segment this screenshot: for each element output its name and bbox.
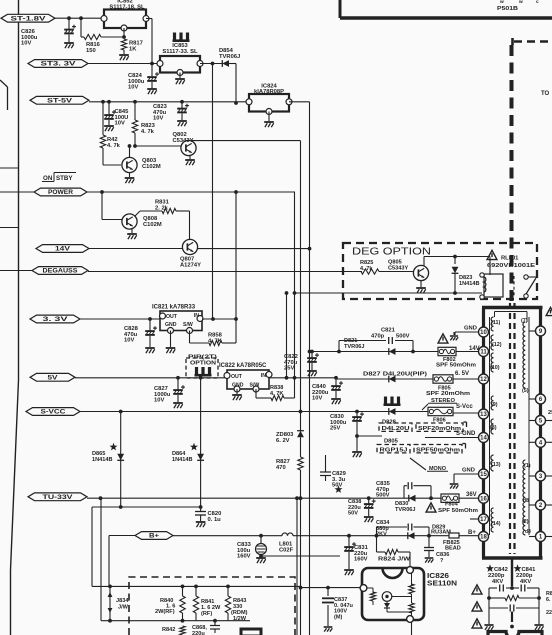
svg-text:D805: D805 <box>384 439 399 445</box>
junction <box>67 16 71 20</box>
chassis left vertical line <box>11 0 19 635</box>
junction <box>100 190 104 194</box>
svg-text:R824 J/W: R824 J/W <box>378 557 411 563</box>
junction <box>337 350 341 354</box>
winding 14 <box>491 508 493 532</box>
wire x212 bus <box>212 64 214 320</box>
junction <box>119 410 123 414</box>
diode D827 <box>389 376 396 383</box>
transistor Q803 <box>122 157 137 172</box>
diode D828 label <box>382 420 397 426</box>
wire y436 to D805 <box>357 435 382 437</box>
label GND pin15 <box>462 468 475 474</box>
fuse F805 value <box>426 391 470 397</box>
junction <box>199 505 203 509</box>
junction <box>148 317 152 321</box>
wire C830 stem <box>356 412 358 418</box>
svg-text:S-VCC: S-VCC <box>41 409 67 416</box>
svg-text:w: w <box>499 0 504 5</box>
winding 11-12 <box>491 317 493 331</box>
wire R843 low <box>227 613 229 621</box>
wire right pin stub <box>546 475 552 477</box>
resistor R840 label <box>155 598 175 615</box>
wire x295 bus <box>294 192 296 378</box>
svg-text:SPF20mOhm: SPF20mOhm <box>418 426 461 432</box>
wire 6.5V row <box>336 378 479 380</box>
wire Q805 emitter <box>420 281 422 288</box>
capacitor C826 <box>64 25 76 34</box>
capacitor C830 value <box>330 414 347 432</box>
wire 3.3V <box>80 318 160 320</box>
diode D821 label <box>344 338 365 350</box>
svg-text:OPTION: OPTION <box>190 361 216 367</box>
label 6.5V right <box>455 371 469 377</box>
wire C823 low <box>181 114 183 121</box>
wire 5V right <box>269 377 336 379</box>
IC826 label <box>427 573 457 588</box>
svg-text:IC821 kA78R33: IC821 kA78R33 <box>152 305 196 311</box>
warning triangle RL801 <box>487 250 497 259</box>
wire x236 power bus <box>235 192 237 343</box>
svg-text:4. 7K: 4. 7K <box>208 338 223 344</box>
svg-text:14V: 14V <box>55 246 71 253</box>
wire R824 <box>377 536 411 566</box>
transformer core dashed left <box>509 303 511 554</box>
capacitor C833 value <box>237 542 252 560</box>
relay RL801 switch <box>514 275 537 298</box>
svg-text:5V: 5V <box>48 375 59 382</box>
fuse F802 label <box>443 357 456 363</box>
diode D821 <box>389 348 396 355</box>
svg-text:S1117-33. SL: S1117-33. SL <box>162 49 198 55</box>
resistor R823 <box>132 120 137 133</box>
wire Q803 collector <box>129 146 131 158</box>
wire R840 top <box>182 586 184 596</box>
capacitor C841 label <box>516 567 536 585</box>
wire POWER left <box>0 191 34 193</box>
wire y507 <box>92 506 201 508</box>
regulator IC852 label <box>117 0 132 5</box>
diode D828 inline <box>389 408 396 415</box>
svg-text:d8: d8 <box>525 529 531 535</box>
junction <box>487 596 491 600</box>
wire DEGAUSS <box>88 271 362 273</box>
ground C836 <box>425 558 434 563</box>
svg-text:POWER: POWER <box>48 189 74 196</box>
capacitor C868 label <box>192 625 207 635</box>
wire C845 stem <box>108 102 110 115</box>
jumper J834 label <box>116 598 129 611</box>
wire R840 low <box>182 613 184 621</box>
heatsink S-VCC <box>384 397 401 407</box>
svg-text:C5343Y: C5343Y <box>388 265 408 271</box>
capacitor C845 <box>104 110 116 119</box>
transformer pin 3 <box>536 471 546 481</box>
wire right pin stub <box>546 420 552 422</box>
wire Q808 collector <box>135 211 162 216</box>
svg-text:C102M: C102M <box>143 222 162 228</box>
resistor R831 <box>162 208 176 213</box>
fuse F804 <box>441 494 459 502</box>
label MONO <box>427 466 448 472</box>
svg-text:16: 16 <box>480 496 487 502</box>
chassis corner mark <box>0 80 8 110</box>
IC821 pin names <box>165 313 199 328</box>
transformer right rail <box>539 308 542 559</box>
regulator IC824 <box>246 94 292 115</box>
transistor Q805 <box>413 265 428 280</box>
regulator IC852 part <box>109 4 145 10</box>
svg-text:10V: 10V <box>312 396 322 402</box>
resistor R42 <box>100 135 105 148</box>
star D864 <box>190 443 198 451</box>
junction <box>510 586 514 590</box>
wire y140.6 <box>190 140 301 142</box>
label GND pin10 <box>464 326 477 332</box>
svg-text:F806: F806 <box>433 418 446 424</box>
transformer bottom bar <box>482 556 543 560</box>
capacitor C829 <box>320 466 331 481</box>
net flag 14V <box>36 245 89 253</box>
capacitor C821 <box>389 337 393 344</box>
wire 14V row <box>310 351 479 353</box>
diode IC826 internal <box>384 601 412 612</box>
wire C838 low <box>368 509 370 516</box>
star C829 <box>335 485 343 493</box>
capacitor C822 value <box>284 354 298 372</box>
wire D823 top <box>454 257 456 265</box>
warning triangle 2 <box>472 602 482 611</box>
capacitor C822 <box>307 353 319 362</box>
capacitor C8xx <box>510 605 514 612</box>
junction <box>234 190 238 194</box>
arrow mono <box>410 458 426 470</box>
junction <box>194 585 198 589</box>
transformer pin 9 <box>536 326 546 336</box>
svg-text:4. 7k: 4. 7k <box>141 129 155 135</box>
star D865 <box>110 443 118 451</box>
IC826 internals <box>367 573 412 616</box>
svg-text:C102M: C102M <box>142 164 161 170</box>
winding labels right <box>521 318 531 535</box>
capacitor C820 value <box>208 511 222 523</box>
svg-text:ON: ON <box>43 175 53 182</box>
transistor Q807 <box>182 239 197 254</box>
junction <box>79 16 83 20</box>
ground left col <box>484 625 493 630</box>
winding 12-10 <box>491 335 493 350</box>
svg-text:ST3. 3V: ST3. 3V <box>41 61 77 68</box>
ground C826 <box>64 43 74 48</box>
wire to pin13 <box>453 412 479 414</box>
svg-text:STBY: STBY <box>56 175 73 182</box>
capacitor C828 <box>145 326 157 335</box>
wire IC852 out <box>146 18 152 20</box>
resistor R838 <box>271 395 284 400</box>
svg-text:1N414B: 1N414B <box>172 457 193 463</box>
wire R825 to Q805 <box>379 271 413 273</box>
ground C828 <box>145 348 155 353</box>
wire ST-5V <box>89 101 249 103</box>
resistor IC826 r2 <box>409 584 414 594</box>
resistor R827 value <box>276 459 290 471</box>
wire C834 row <box>377 527 430 536</box>
regulator IC824 part <box>254 89 284 95</box>
fuse F802 <box>438 347 456 355</box>
wire D823 low <box>454 274 456 294</box>
regulator IC853 part <box>162 49 198 55</box>
wire C828 low <box>149 336 151 347</box>
svg-text:2W(RF): 2W(RF) <box>155 609 175 615</box>
DEG OPTION dashed box <box>343 243 537 299</box>
ground Q802 <box>185 160 195 165</box>
resistor R842 label <box>162 627 175 633</box>
svg-text:6. 5V: 6. 5V <box>455 371 469 377</box>
svg-text:ST-1.8V: ST-1.8V <box>11 15 47 22</box>
wire R858 out <box>222 342 236 344</box>
svg-text:10V: 10V <box>153 116 163 122</box>
transformer top inner link <box>495 312 528 323</box>
svg-text:ST-5V: ST-5V <box>47 98 73 105</box>
junction <box>429 496 433 500</box>
wire C826 lower <box>68 35 70 43</box>
wire right pin stub <box>546 441 552 443</box>
transistor Q805 label <box>388 260 408 272</box>
wire C822 low <box>311 363 313 370</box>
svg-text:P501B: P501B <box>497 6 518 12</box>
ground Q808 <box>127 234 137 239</box>
junction <box>285 376 289 380</box>
wire right pin inner stub <box>529 504 536 506</box>
svg-text:OUT: OUT <box>166 314 178 320</box>
capacitor C836 <box>424 548 434 551</box>
wire stub left y168 <box>0 167 19 169</box>
junction <box>226 585 230 589</box>
resistor R824 label <box>378 557 411 563</box>
capacitor C833 <box>256 544 267 555</box>
wire C830 gnd stem <box>356 436 358 451</box>
diode D854 <box>222 60 229 67</box>
svg-text:S-Vcc: S-Vcc <box>456 404 473 410</box>
ground C833 <box>256 558 266 563</box>
svg-text:4KV: 4KV <box>492 579 503 585</box>
resistor R831 value <box>155 200 170 212</box>
capacitor C836 label <box>436 552 449 564</box>
label ON-STBY <box>42 173 76 183</box>
svg-text:(7): (7) <box>521 318 528 324</box>
junction <box>367 496 371 500</box>
wire Q808 base <box>102 219 122 221</box>
wire B+ right <box>173 535 282 537</box>
junction <box>285 291 289 295</box>
resistor R843 <box>225 596 230 613</box>
dashed line to CRT top <box>514 40 552 43</box>
svg-text:50V: 50V <box>348 511 358 517</box>
regulator IC821 <box>160 311 204 334</box>
wire D864 column <box>200 378 202 507</box>
wire right pin inner stub <box>529 330 536 332</box>
wire x101 drop <box>100 498 102 621</box>
resistor R817 <box>121 39 126 50</box>
svg-text:TVR06J: TVR06J <box>219 54 240 60</box>
svg-text:50V: 50V <box>332 483 342 489</box>
ground right col <box>534 625 543 630</box>
svg-text:12: 12 <box>480 377 487 383</box>
resistor R816 value <box>86 42 101 54</box>
capacitor C821 label <box>371 328 410 340</box>
svg-text:14: 14 <box>480 436 487 442</box>
wire y620.7 <box>101 620 250 622</box>
resistor R816 <box>84 34 101 39</box>
wire POWER <box>87 191 295 193</box>
bottom left connector box <box>241 629 261 635</box>
wire Q802 collector <box>189 140 191 142</box>
wire C840 low <box>335 391 337 398</box>
wire C831 stem <box>348 536 350 547</box>
svg-text:25: 25 <box>548 410 552 416</box>
wire Q802 emitter <box>189 156 191 160</box>
svg-text:4KV: 4KV <box>520 579 531 585</box>
junction <box>259 534 263 538</box>
wire 14V left <box>89 248 183 250</box>
wire Q808 emitter <box>131 229 133 233</box>
svg-text:A1274Y: A1274Y <box>180 262 201 268</box>
transformer pin 18 <box>479 532 489 542</box>
diode D823 <box>452 267 459 274</box>
svg-text:22: 22 <box>546 610 552 616</box>
DEG OPTION title <box>352 247 431 258</box>
wire R42 to Q803 <box>103 164 121 166</box>
svg-text:17: 17 <box>480 517 487 523</box>
capacitor C838 <box>364 499 376 508</box>
svg-text:1N414B: 1N414B <box>92 457 113 463</box>
junction <box>308 350 312 354</box>
wire transformer bottom center <box>511 558 513 586</box>
connector P501B box <box>340 0 552 18</box>
wire R817 low <box>123 50 125 54</box>
ground C831 <box>344 570 354 575</box>
transformer pin 10 <box>479 327 489 337</box>
net flag B+ <box>135 532 173 540</box>
winding 7-5 <box>523 322 525 388</box>
resistor R824 <box>385 549 398 554</box>
svg-text:GND: GND <box>232 383 244 389</box>
label S-Vcc right <box>456 404 473 410</box>
wire IC822 s/w <box>256 389 271 398</box>
capacitor C834 value <box>376 520 390 538</box>
svg-text:25V: 25V <box>330 426 340 432</box>
warning triangle 14V <box>438 334 448 343</box>
wire DEG bottom <box>295 292 482 294</box>
warning triangle 1 <box>472 585 482 594</box>
regulator IC822 <box>224 370 272 392</box>
svg-text:(2): (2) <box>522 519 529 525</box>
resistor R8xx <box>505 595 519 600</box>
ground R817 <box>119 55 129 60</box>
svg-text:3. 3V: 3. 3V <box>43 316 70 323</box>
junction <box>176 376 180 380</box>
svg-text:150: 150 <box>86 48 96 54</box>
heatsink IC822 <box>195 367 212 377</box>
svg-text:d8: d8 <box>523 498 529 504</box>
resistor R841 <box>193 596 198 613</box>
junction <box>411 350 415 354</box>
dashed corner <box>511 38 514 45</box>
ground IC824 <box>264 122 274 127</box>
fuse option SPF50 dashed <box>414 444 466 454</box>
wire IC826 out bottom <box>411 623 413 635</box>
wire C8xx row <box>489 607 539 609</box>
capacitor C840 <box>331 381 343 390</box>
ground C822 <box>307 371 317 376</box>
net flag ST3.3V <box>28 60 88 68</box>
svg-text:B+: B+ <box>149 533 159 540</box>
svg-text:?: ? <box>440 558 444 564</box>
wire pin15 gnd <box>454 474 479 483</box>
net flag DEGAUSS <box>32 267 88 275</box>
svg-text:(5): (5) <box>522 388 529 394</box>
diode D865 label <box>92 451 113 463</box>
svg-text:(11): (11) <box>491 320 500 326</box>
svg-text:25V: 25V <box>284 366 294 372</box>
svg-text:36V: 36V <box>466 492 477 498</box>
ground IC821 <box>166 348 176 353</box>
resistor R858 <box>209 340 222 345</box>
wire y586.4 <box>92 585 302 587</box>
wire right pin inner stub <box>529 475 536 477</box>
diode D828 dashed option <box>379 423 412 432</box>
label right edge 22 <box>546 610 552 616</box>
diode D865 <box>117 454 124 461</box>
capacitor C830 <box>352 412 364 421</box>
transformer left winding bus <box>489 317 491 535</box>
wire x300 long bus <box>300 141 302 431</box>
label right edge R8 <box>546 591 552 603</box>
label 25 right edge <box>548 410 552 416</box>
svg-text:TVR06J: TVR06J <box>344 344 365 350</box>
ground IC822 <box>232 395 242 400</box>
svg-text:DEG OPTION: DEG OPTION <box>352 247 431 258</box>
transistor Q807 label <box>180 257 201 269</box>
junction <box>181 585 185 589</box>
star C842 <box>486 564 494 572</box>
fuse F805 label <box>438 386 451 392</box>
diode D830 label <box>395 501 416 513</box>
wire base Q802 <box>135 145 181 147</box>
svg-text:OUT: OUT <box>231 374 243 380</box>
junction <box>108 619 112 623</box>
fuse F806 label <box>433 418 446 424</box>
label 14V right <box>469 346 480 352</box>
wire right pin inner stub <box>529 441 536 443</box>
resistor R858 value <box>208 333 223 345</box>
warning triangle transformer top <box>546 307 552 315</box>
wire R8xx row <box>489 597 539 599</box>
svg-text:13: 13 <box>480 412 487 418</box>
transistor Q802 <box>181 140 196 155</box>
transformer right winding bus <box>528 317 530 535</box>
wire right col <box>538 588 540 624</box>
relay RL801 coil <box>480 273 503 299</box>
transformer pin 11 <box>479 347 489 357</box>
junction <box>299 496 303 500</box>
capacitor C840 value <box>312 384 329 402</box>
junction <box>107 100 111 104</box>
regulator IC853 label <box>172 43 188 49</box>
diode D827 label <box>363 372 427 378</box>
svg-text:RGP15J: RGP15J <box>380 447 408 453</box>
wire C824 low <box>151 82 153 88</box>
